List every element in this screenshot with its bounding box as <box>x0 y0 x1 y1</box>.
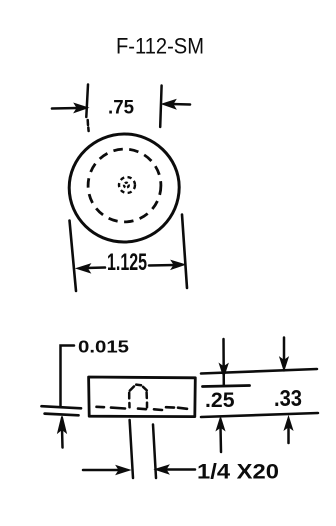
outer circle (top view of part) <box>69 134 179 242</box>
value label 1.125 <box>107 249 147 276</box>
value label 0.015 <box>78 337 129 357</box>
title F-112-SM <box>116 34 204 59</box>
value label .75 <box>108 98 134 119</box>
dimension .75 right arrow <box>163 100 190 108</box>
leader line for 0.015 <box>61 346 75 408</box>
svg-text:.33: .33 <box>274 385 302 411</box>
down arrow for .33 <box>280 338 287 370</box>
svg-text:1.125: 1.125 <box>107 249 147 276</box>
center tiny ring <box>124 183 129 188</box>
value label .25 <box>205 389 235 412</box>
right short extension line (step top) <box>203 386 250 387</box>
up arrow for .25 <box>217 418 224 452</box>
dimension .75 left arrow <box>52 104 87 112</box>
dimension 1.125 left extension line <box>70 221 77 292</box>
callout left arrow pointing right <box>83 466 129 474</box>
step extension line lower (0.015 lip) <box>45 414 79 416</box>
callout right arrow pointing left <box>156 466 195 474</box>
svg-text:F-112-SM: F-112-SM <box>116 34 204 59</box>
dimension .75 right extension line <box>160 86 161 128</box>
dimension .75 left extension line <box>86 85 88 132</box>
center small dashed circle <box>119 177 135 193</box>
right top extension line <box>201 369 317 374</box>
down arrow for .25 <box>220 339 227 386</box>
leader line right from thread to callout <box>153 425 156 479</box>
up arrow pointing to 0.015 lip <box>58 417 66 448</box>
value label .33 <box>274 385 302 411</box>
svg-text:1/4 X20: 1/4 X20 <box>197 461 279 484</box>
up arrow for .33 <box>285 418 292 444</box>
hidden thread hole dashed profile <box>129 385 147 408</box>
side view rectangle of part <box>89 377 196 417</box>
right bottom extension line <box>201 413 318 417</box>
leader line left from thread to callout <box>130 420 133 478</box>
dimension 1.125 line with arrows <box>78 261 185 272</box>
dimension 1.125 right extension line <box>182 215 187 289</box>
svg-text:.75: .75 <box>108 98 134 119</box>
hidden bottom edge dashed line <box>97 407 188 410</box>
svg-text:.25: .25 <box>205 389 235 412</box>
step extension line upper (0.015 lip) <box>42 406 82 408</box>
svg-text:0.015: 0.015 <box>78 337 129 357</box>
inner dashed circle (bolt circle) <box>88 149 161 222</box>
thread callout label 1/4 X20 <box>197 461 279 484</box>
